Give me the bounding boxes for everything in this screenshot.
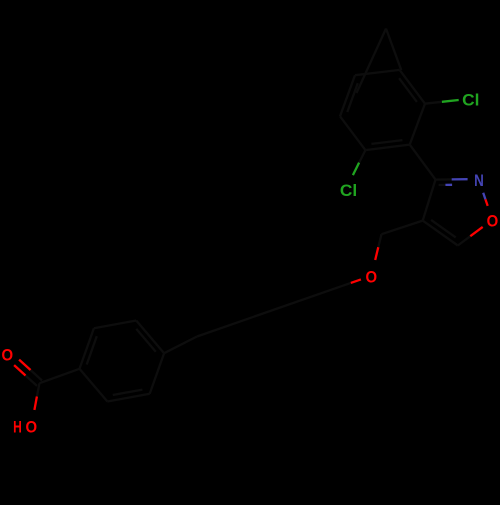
bond C(acid)-ring: [40, 369, 80, 383]
bond C3(isoxazole)-C1(aryl): [410, 145, 436, 180]
bond half red into O(ether): [351, 279, 361, 283]
dichlorophenyl single bond 2: [355, 70, 400, 75]
bond C6-Cl: [425, 102, 442, 104]
dichlorophenyl single bond 3: [410, 104, 425, 145]
dichlorophenyl double bond 2: [340, 75, 355, 116]
svg-text:H: H: [13, 418, 22, 437]
benzene(left) single bond 1: [94, 321, 136, 329]
dichlorophenyl double bond 1: [365, 145, 409, 151]
chain bond ring-K: [164, 337, 197, 354]
isoxazole C3-C4: [423, 180, 436, 221]
bond C2-Cl: [359, 150, 365, 163]
bond C-OH (acid): [37, 383, 40, 396]
svg-text:O: O: [26, 418, 38, 437]
top segment 1: [357, 29, 387, 94]
isoxazole C4=C5 double: [423, 221, 458, 246]
svg-text:O: O: [487, 211, 499, 230]
isoxazole C5-O: [458, 236, 471, 245]
svg-text:N: N: [474, 171, 484, 190]
benzene(left) double bond 3: [107, 394, 149, 402]
benzene(left) double bond 2: [136, 321, 164, 354]
isoxazole N=C3 double: [452, 178, 468, 180]
dichlorophenyl single bond 1: [340, 116, 365, 150]
bond O(ether)-CH2: [375, 247, 378, 260]
benzene(left) single bond 3: [80, 369, 108, 402]
svg-text:Cl: Cl: [340, 181, 357, 200]
benzene(left) double bond 1: [80, 328, 94, 369]
benzene(left) single bond 2: [150, 353, 164, 394]
bond CH2-C4(isoxazole): [382, 221, 423, 235]
bond C=O (acid): [31, 370, 43, 381]
top segment 2: [386, 29, 401, 71]
chain collinear bonds: [197, 283, 351, 337]
svg-text:O: O: [366, 268, 378, 287]
svg-text:Cl: Cl: [462, 91, 479, 110]
dichlorophenyl double bond 3: [400, 70, 425, 104]
svg-text:O: O: [2, 346, 14, 365]
isoxazole O-N: [485, 199, 487, 206]
